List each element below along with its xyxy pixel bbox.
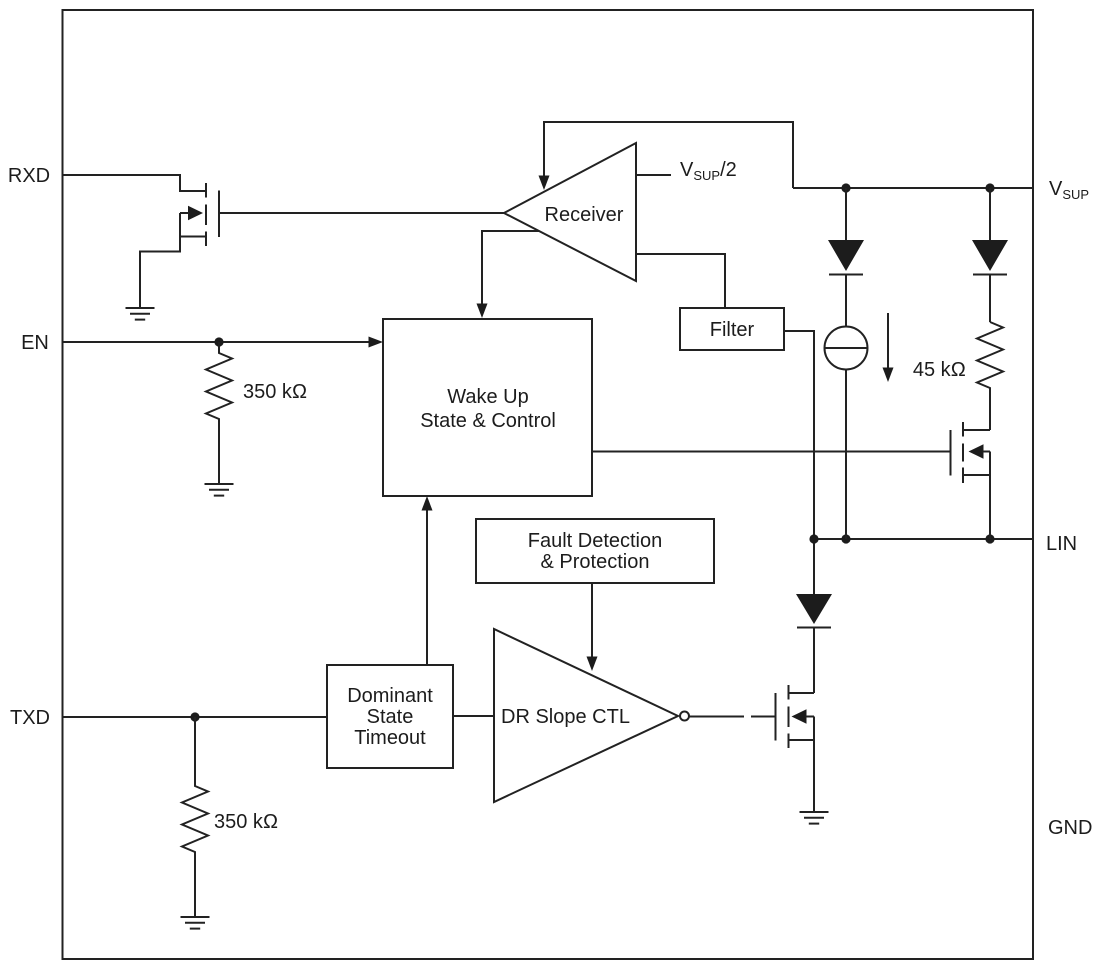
VSUP/2 reference stub <box>636 174 671 176</box>
wire Filter to LIN <box>784 331 814 539</box>
wire Wake Up to M2 gate <box>592 451 951 453</box>
svg-text:DR Slope CTL: DR Slope CTL <box>501 706 630 728</box>
wire VSUP feedback to receiver input <box>544 122 793 188</box>
LIN rail <box>814 538 1033 540</box>
wire R2 to ground <box>194 858 196 917</box>
svg-text:Dominant: Dominant <box>347 685 433 707</box>
svg-text:TXD: TXD <box>10 707 50 729</box>
wire EN <box>62 341 371 343</box>
svg-text:State: State <box>367 706 414 728</box>
junction dot EN <box>214 337 223 346</box>
ground (TXD pull-down) <box>181 917 210 929</box>
wire Fault to DR Slope CTL <box>591 583 593 658</box>
wire DR output <box>689 716 744 718</box>
transistor Q1 <box>180 183 219 246</box>
svg-text:350 kΩ: 350 kΩ <box>214 811 278 833</box>
wire D2 to R3 <box>989 275 991 323</box>
wire R3 to M2 drain <box>989 394 991 430</box>
svg-text:Timeout: Timeout <box>354 727 426 749</box>
wire M3 drain to diode D3 <box>813 628 815 693</box>
svg-text:State & Control: State & Control <box>420 410 556 432</box>
wire TXD <box>62 716 327 718</box>
junction dot VSUP left <box>841 183 850 192</box>
diode D3 <box>796 594 832 628</box>
wire Q1 source to ground <box>140 237 180 309</box>
buffer U2 DR Slope CTL <box>494 629 678 802</box>
wire I1 to LIN <box>845 370 847 540</box>
svg-text:VSUP: VSUP <box>1049 178 1089 202</box>
wire D3 to LIN <box>813 539 815 594</box>
current direction arrow <box>887 313 889 369</box>
arrow into Wake Up left <box>369 337 384 348</box>
wire receiver lower input to Wake Up <box>482 231 539 306</box>
junction dot VSUP right <box>985 183 994 192</box>
arrow into receiver top edge <box>539 176 550 191</box>
svg-text:GND: GND <box>1048 817 1092 839</box>
wire R1 to ground <box>218 425 220 484</box>
junction dot TXD <box>190 712 199 721</box>
block Wake Up State & Control <box>383 319 592 496</box>
wire D1 to current source <box>845 275 847 327</box>
arrow into DR top edge <box>587 657 598 672</box>
wire M2 source to LIN <box>989 475 991 539</box>
svg-text:EN: EN <box>21 332 49 354</box>
svg-text:RXD: RXD <box>8 165 50 187</box>
svg-text:Fault Detection: Fault Detection <box>528 530 663 552</box>
resistor R1 350k <box>206 342 232 425</box>
arrow into Wake Up bottom <box>422 496 433 511</box>
svg-text:& Protection: & Protection <box>541 551 650 573</box>
ground (EN pull-down) <box>205 484 234 496</box>
wire receiver to Filter <box>636 254 725 308</box>
block Filter <box>680 308 784 350</box>
diode D1 <box>828 240 864 275</box>
svg-text:VSUP/2: VSUP/2 <box>680 159 737 183</box>
transistor M3 <box>776 685 815 748</box>
junction dot LIN left <box>809 534 818 543</box>
svg-text:Filter: Filter <box>710 319 755 341</box>
op-amp U1 Receiver <box>504 143 636 281</box>
wire Q1 gate to receiver output <box>219 212 504 214</box>
wire to M3 gate <box>751 716 776 718</box>
svg-text:Receiver: Receiver <box>545 204 624 226</box>
ground (LIN driver) <box>800 812 829 824</box>
wire VSUP to D2 <box>989 188 991 240</box>
transistor M2 <box>951 422 991 483</box>
VSUP rail <box>793 187 1033 189</box>
wire VSUP to D1 <box>845 188 847 240</box>
wire M3 source to ground <box>813 740 815 812</box>
junction dot LIN right <box>985 534 994 543</box>
wire RXD to Q1 drain <box>62 175 206 191</box>
ground (RXD pull-down) <box>126 308 155 320</box>
svg-text:45 kΩ: 45 kΩ <box>913 359 966 381</box>
block Dominant State Timeout <box>327 665 453 768</box>
arrow into Wake Up top <box>477 304 488 319</box>
resistor R3 45k <box>977 322 1003 394</box>
block Fault Detection & Protection <box>476 519 714 583</box>
svg-text:Wake Up: Wake Up <box>447 386 529 408</box>
svg-text:LIN: LIN <box>1046 533 1077 555</box>
wire Dominant to Wake Up <box>426 509 428 665</box>
inverter bubble <box>680 712 689 721</box>
diode D2 <box>972 240 1008 275</box>
svg-text:350 kΩ: 350 kΩ <box>243 381 307 403</box>
resistor R2 350k <box>182 717 208 858</box>
wire Dominant to DR Slope CTL <box>453 715 494 717</box>
current source I1 <box>825 327 868 370</box>
junction dot LIN middle <box>841 534 850 543</box>
